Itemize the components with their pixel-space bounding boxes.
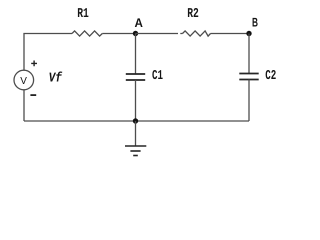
junction node on bottom rail	[133, 118, 138, 123]
svg-text:B: B	[252, 15, 258, 29]
wire top-left lead from source to R1	[24, 34, 72, 71]
wire R2 to node B	[211, 33, 250, 35]
svg-text:R1: R1	[77, 7, 89, 22]
svg-text:V: V	[20, 76, 27, 87]
wire bottom rail	[24, 120, 249, 122]
node A	[133, 16, 143, 36]
capacitor C1	[126, 69, 163, 84]
wire C1 to bottom rail	[135, 80, 137, 121]
voltage source Vf	[14, 70, 34, 90]
resistor R1	[72, 7, 102, 36]
plus polarity mark	[31, 61, 37, 67]
svg-text:A: A	[135, 16, 143, 30]
wire node A to R2	[136, 33, 183, 35]
wire R1 to node A	[102, 33, 135, 35]
resistor R2	[183, 7, 211, 36]
wire source bottom to bottom rail	[23, 90, 25, 121]
capacitor C2	[239, 69, 276, 84]
node B	[246, 15, 258, 36]
wire node B down to C2	[248, 34, 250, 74]
svg-text:R2: R2	[187, 7, 199, 22]
wire node A down to C1	[135, 34, 137, 75]
label Vf	[49, 71, 63, 86]
svg-text:C2: C2	[265, 69, 276, 84]
ground	[125, 121, 146, 156]
svg-text:C1: C1	[152, 69, 163, 84]
svg-text:Vf: Vf	[49, 71, 63, 86]
minus polarity mark	[30, 94, 36, 96]
wire C2 to bottom rail	[248, 80, 250, 122]
